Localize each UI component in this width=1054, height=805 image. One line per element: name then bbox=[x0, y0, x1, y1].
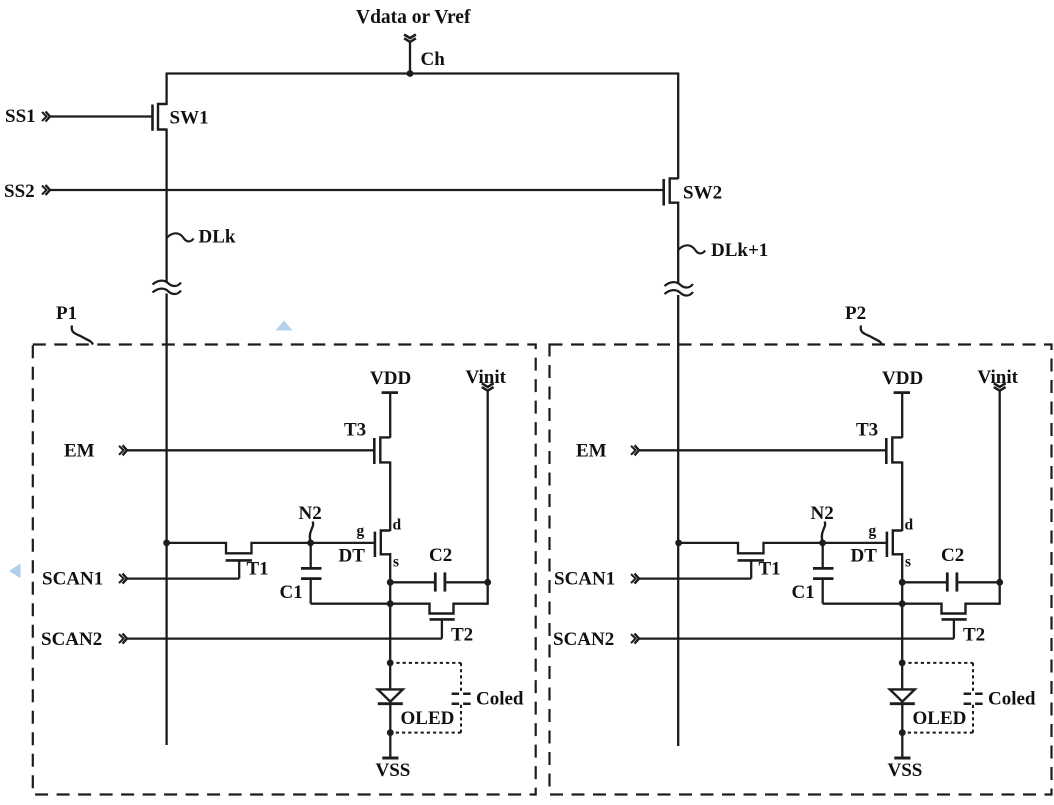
transistor SW2 bbox=[664, 178, 679, 205]
transistor SW1 bbox=[153, 104, 167, 131]
svg-text:DT: DT bbox=[339, 546, 366, 567]
wire: OLED cathode to VSS (P1) bbox=[389, 704, 391, 758]
transistor T3 (P1) bbox=[374, 437, 390, 464]
junction dot C2-Vinit (P1) bbox=[484, 579, 491, 586]
dashed pixel boundary box P2 bbox=[550, 345, 1052, 795]
svg-text:SW1: SW1 bbox=[170, 108, 209, 129]
parasitic capacitor Coled dashed outline (P2) bbox=[902, 663, 973, 733]
capacitor C2 (P1) bbox=[390, 572, 488, 591]
terminal Vinit (double-chevron up) (P1) bbox=[482, 383, 494, 390]
wire: Vinit line down to C2/T2 (P2) bbox=[999, 391, 1001, 605]
capacitor C1 (P2) bbox=[813, 542, 834, 604]
wire: node N2 row with T1 source/drain steps (P2) bbox=[679, 543, 887, 553]
transistor T1 gate bar (P2) bbox=[738, 559, 764, 562]
transistor T2 gate bar (P1) bbox=[430, 618, 455, 621]
svg-text:OLED: OLED bbox=[401, 708, 455, 729]
svg-text:SCAN2: SCAN2 bbox=[553, 629, 614, 650]
junction dot source-C2 row (P2) bbox=[899, 579, 906, 586]
svg-text:Ch: Ch bbox=[421, 49, 446, 70]
svg-text:Vdata or Vref: Vdata or Vref bbox=[356, 7, 471, 28]
svg-text:SCAN1: SCAN1 bbox=[42, 569, 103, 590]
input arrow SS2 bbox=[42, 185, 50, 195]
wire: T3 source to DT drain (P2) bbox=[901, 462, 903, 532]
svg-text:d: d bbox=[905, 517, 914, 534]
svg-text:s: s bbox=[905, 554, 911, 571]
junction dot source-C2 row (P1) bbox=[387, 579, 394, 586]
transistor DT (drive) (P1) bbox=[375, 531, 390, 558]
svg-text:P1: P1 bbox=[56, 303, 77, 324]
wire: SW2 drain from top bus bbox=[677, 73, 679, 180]
junction dot on DL line (P1) bbox=[163, 540, 170, 547]
wire: data line DLk+1 (SW2 source, with break) bbox=[677, 202, 679, 747]
svg-text:T2: T2 bbox=[451, 625, 473, 646]
capacitor C2 (P2) bbox=[902, 572, 1000, 591]
junction dot Coled bottom (P1) bbox=[387, 729, 394, 736]
svg-text:OLED: OLED bbox=[913, 708, 967, 729]
input arrow SCAN1 (P1) bbox=[119, 574, 127, 584]
capacitor Coled plates (P1) bbox=[452, 694, 472, 704]
svg-text:SCAN1: SCAN1 bbox=[554, 569, 615, 590]
ground terminal VSS bar (P2) bbox=[894, 757, 910, 760]
dashed pixel boundary box P1 bbox=[33, 345, 536, 795]
svg-text:VSS: VSS bbox=[376, 760, 411, 781]
parasitic capacitor Coled dashed outline (P1) bbox=[390, 663, 461, 733]
svg-text:T1: T1 bbox=[759, 559, 781, 580]
wire: EM to T3 gate (P1) bbox=[127, 449, 373, 451]
transistor DT (drive) (P2) bbox=[887, 531, 902, 558]
wire: SCAN2 line (P1) bbox=[127, 637, 442, 639]
wire: C1 bottom to source rail (P1) bbox=[311, 603, 391, 605]
svg-text:T1: T1 bbox=[247, 559, 269, 580]
line-break symbol on DLk+1 bbox=[665, 282, 694, 295]
svg-text:T3: T3 bbox=[344, 420, 366, 441]
svg-text:s: s bbox=[393, 554, 399, 571]
svg-text:VDD: VDD bbox=[370, 368, 411, 389]
svg-text:g: g bbox=[357, 523, 365, 540]
diode OLED (P2) bbox=[890, 689, 915, 703]
transistor T2 channel and leads (P1) bbox=[390, 604, 488, 614]
wire: C1 bottom to source rail (P2) bbox=[823, 603, 903, 605]
svg-text:SW2: SW2 bbox=[683, 183, 722, 204]
svg-text:C1: C1 bbox=[792, 582, 815, 603]
svg-text:T2: T2 bbox=[963, 625, 985, 646]
diode OLED (P1) bbox=[378, 689, 403, 703]
input arrow EM (P1) bbox=[119, 445, 127, 455]
svg-text:DT: DT bbox=[851, 546, 878, 567]
transistor T2 gate bar (P2) bbox=[942, 618, 967, 621]
input arrow EM (P2) bbox=[631, 445, 639, 455]
svg-text:Coled: Coled bbox=[476, 689, 524, 710]
wire: T2 gate to SCAN2 (P2) bbox=[953, 619, 955, 638]
capacitor C1 (P1) bbox=[301, 542, 322, 604]
capacitor Coled plates (P2) bbox=[964, 694, 984, 704]
svg-text:VSS: VSS bbox=[888, 760, 923, 781]
transistor T1 gate bar (P1) bbox=[226, 559, 252, 562]
wire: OLED cathode to VSS (P2) bbox=[901, 704, 903, 758]
leader squiggle P2 bbox=[861, 326, 882, 345]
power terminal VDD bar (P1) bbox=[382, 391, 398, 394]
input arrow SCAN1 (P2) bbox=[631, 574, 639, 584]
svg-text:d: d bbox=[393, 517, 402, 534]
wire: DT source rail down through C2/C1 rows (P2) bbox=[901, 553, 903, 605]
wire: T2 gate to SCAN2 (P1) bbox=[441, 619, 443, 638]
node Ch junction dot bbox=[407, 70, 414, 77]
wire: top horizontal bus bbox=[167, 72, 679, 74]
leader squiggle N2 (P1) bbox=[310, 522, 313, 542]
ground terminal VSS bar (P1) bbox=[382, 757, 398, 760]
svg-text:EM: EM bbox=[64, 441, 95, 462]
squiggle marker DLk bbox=[167, 233, 194, 241]
svg-text:g: g bbox=[869, 523, 877, 540]
svg-text:SS1: SS1 bbox=[5, 106, 36, 127]
wire: T1 gate to SCAN1 (P2) bbox=[750, 560, 752, 578]
svg-text:P2: P2 bbox=[845, 303, 866, 324]
power terminal VDD bar (P2) bbox=[894, 391, 910, 394]
junction dot source-C1 row (P2) bbox=[899, 600, 906, 607]
leader squiggle P1 bbox=[72, 326, 93, 345]
junction dot N2 (P2) bbox=[819, 540, 826, 547]
svg-text:SCAN2: SCAN2 bbox=[41, 629, 102, 650]
wire: SCAN1 line (P1) bbox=[127, 577, 239, 579]
svg-text:C2: C2 bbox=[429, 545, 452, 566]
leader squiggle N2 (P2) bbox=[822, 522, 825, 542]
wire: SCAN1 line (P2) bbox=[639, 577, 751, 579]
wire: SCAN2 line (P2) bbox=[639, 637, 954, 639]
wire: SW1 drain to top bus bbox=[165, 73, 167, 106]
junction dot C2-Vinit (P2) bbox=[996, 579, 1003, 586]
wire: VDD to T3 drain (P2) bbox=[901, 393, 903, 438]
wire: VDD to T3 drain (P1) bbox=[389, 393, 391, 438]
svg-text:DLk: DLk bbox=[199, 227, 236, 248]
input arrow SCAN2 (P1) bbox=[119, 634, 127, 644]
wire: source rail down to OLED anode (P2) bbox=[901, 603, 903, 690]
wire: node N2 row with T1 source/drain steps (P1) bbox=[167, 543, 375, 553]
squiggle marker DLk+1 bbox=[678, 245, 705, 253]
svg-text:N2: N2 bbox=[299, 503, 322, 524]
wire: data line DLk (SW1 source, with break) bbox=[165, 129, 167, 746]
watermark triangle (up) bbox=[276, 321, 293, 331]
line-break symbol on DLk bbox=[153, 281, 182, 294]
wire: Vinit line down to C2/T2 (P1) bbox=[487, 391, 489, 605]
junction dot on DL line (P2) bbox=[675, 540, 682, 547]
watermark triangle (left) bbox=[9, 564, 21, 579]
input arrow SS1 bbox=[42, 112, 50, 122]
svg-text:N2: N2 bbox=[811, 503, 834, 524]
transistor T2 channel and leads (P2) bbox=[902, 604, 1000, 614]
junction dot N2 (P1) bbox=[307, 540, 314, 547]
svg-text:EM: EM bbox=[576, 441, 607, 462]
wire: SS1 to SW1 gate bbox=[50, 115, 152, 117]
junction dot Coled top (P1) bbox=[387, 660, 394, 667]
svg-text:T3: T3 bbox=[856, 420, 878, 441]
terminal Vdata/Vref (double-chevron up) with lead bbox=[404, 35, 416, 75]
wire: source rail down to OLED anode (P1) bbox=[389, 603, 391, 690]
wire: T1 gate to SCAN1 (P1) bbox=[238, 560, 240, 578]
terminal Vinit (double-chevron up) (P2) bbox=[994, 383, 1006, 390]
wire: T3 source to DT drain (P1) bbox=[389, 462, 391, 532]
junction dot Coled bottom (P2) bbox=[899, 729, 906, 736]
junction dot Coled top (P2) bbox=[899, 660, 906, 667]
wire: SS2 to SW2 gate bbox=[50, 189, 663, 191]
svg-text:VDD: VDD bbox=[882, 368, 923, 389]
wire: EM to T3 gate (P2) bbox=[639, 449, 885, 451]
junction dot source-C1 row (P1) bbox=[387, 600, 394, 607]
input arrow SCAN2 (P2) bbox=[631, 634, 639, 644]
transistor T3 (P2) bbox=[886, 437, 902, 464]
svg-text:C2: C2 bbox=[941, 545, 964, 566]
svg-text:SS2: SS2 bbox=[4, 181, 35, 202]
svg-text:Coled: Coled bbox=[988, 689, 1036, 710]
svg-text:C1: C1 bbox=[280, 582, 303, 603]
wire: DT source rail down through C2/C1 rows (P1) bbox=[389, 553, 391, 605]
svg-text:DLk+1: DLk+1 bbox=[711, 240, 768, 261]
